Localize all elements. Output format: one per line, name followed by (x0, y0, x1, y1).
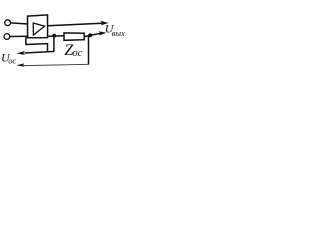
input terminal circle (bottom) (4, 34, 10, 40)
amplifier triangle symbol (33, 23, 44, 35)
wire: output top lead (48, 23, 102, 26)
wire: feedback rail lower (24, 64, 90, 65)
wire: series loop riser to feedback rail (47, 43, 49, 52)
arrowhead: output bottom lead (99, 31, 107, 35)
input terminal circle (top) (5, 20, 11, 26)
arrowhead: U_oc lower (16, 63, 24, 66)
wire: top input lead (11, 23, 28, 24)
wire: output bottom lead into Z_oc (48, 35, 64, 37)
wire: drop from node 2 (88, 36, 90, 65)
arrowhead: U_oc upper (17, 51, 25, 55)
wire: bottom input lead (10, 35, 28, 37)
wire: series loop bottom run (25, 43, 47, 46)
svg-text:вых: вых (112, 28, 125, 38)
junction dot node 2 (88, 33, 92, 37)
arrowhead: output top lead (101, 21, 109, 26)
svg-text:ос: ос (72, 48, 82, 59)
junction dot node 1 (52, 34, 56, 38)
svg-text:ос: ос (8, 55, 16, 65)
wire: feedback rail upper (to U_oc) (25, 51, 55, 53)
amplifier box U1 (28, 15, 48, 38)
feedback impedance box Z_oc (64, 33, 84, 40)
wire: feedback drop from node 1 (53, 36, 55, 51)
wire: series loop drop from bottom input (25, 37, 27, 45)
wire: Z_oc to output node 2 (84, 33, 100, 36)
